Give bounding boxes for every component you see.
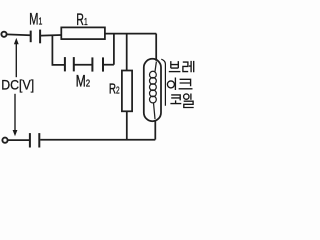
svg-text:DC[V]: DC[V] (1, 77, 34, 93)
svg-text:R1: R1 (76, 11, 88, 29)
svg-text:M1: M1 (29, 10, 42, 29)
svg-text:R2: R2 (109, 81, 120, 98)
svg-text:M2: M2 (76, 73, 91, 91)
